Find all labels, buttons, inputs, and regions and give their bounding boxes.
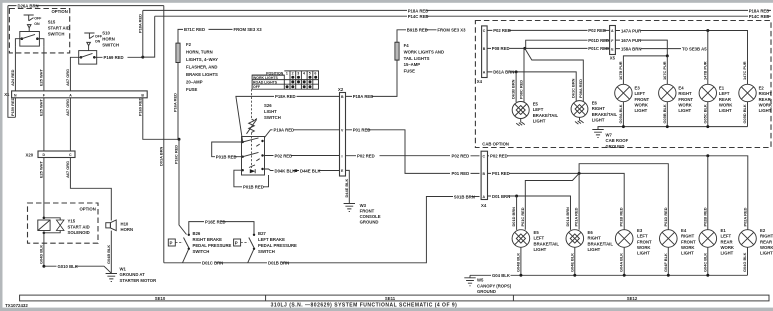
wire P01B RED jumper loop left (212, 142, 243, 160)
svg-text:BRAKE/TAIL: BRAKE/TAIL (588, 241, 614, 246)
svg-text:E3: E3 (635, 86, 641, 91)
svg-text:REAR: REAR (760, 239, 772, 244)
wire G04B BLK horn down (106, 231, 111, 274)
svg-text:P159 RED: P159 RED (10, 97, 15, 116)
svg-text:X2: X2 (338, 87, 344, 92)
svg-text:FRONT: FRONT (678, 97, 693, 102)
wire 167A PUR X5F to front work lamps (615, 38, 668, 85)
svg-text:FRONT: FRONT (637, 239, 652, 244)
svg-text:WORK: WORK (678, 102, 692, 107)
wire A67 ORG X20 to horn H10 (65, 158, 111, 221)
svg-text:FROM SE3 X3: FROM SE3 X3 (234, 27, 263, 32)
svg-text:STARTER MOTOR: STARTER MOTOR (120, 278, 157, 283)
svg-text:G05D BLK: G05D BLK (742, 104, 747, 123)
svg-text:F2: F2 (186, 42, 192, 47)
svg-text:LIGHT: LIGHT (592, 117, 605, 122)
svg-text:P01B RED: P01B RED (619, 207, 624, 226)
svg-text:P18A RED: P18A RED (137, 14, 142, 33)
svg-text:167A PUR: 167A PUR (621, 38, 641, 43)
switch S15 START AID SWITCH (15, 15, 70, 46)
svg-text:310LJ (S.N. —802629) SYSTEM FU: 310LJ (S.N. —802629) SYSTEM FUNCTIONAL S… (271, 303, 458, 309)
svg-text:P01A RED: P01A RED (574, 207, 579, 226)
svg-text:5: 5 (309, 72, 311, 76)
svg-text:I: I (342, 154, 343, 158)
svg-text:CAB OPTION: CAB OPTION (482, 141, 509, 146)
wire D01C BRN / D01B BRN brake bottom bus (164, 197, 453, 266)
svg-text:158A BRN: 158A BRN (621, 46, 641, 51)
lamp E4 lower RIGHT FRONT WORK LIGHT (660, 228, 697, 255)
svg-text:D01A BRN: D01A BRN (565, 207, 570, 227)
svg-text:LEFT: LEFT (635, 91, 646, 96)
svg-text:ON: ON (95, 40, 101, 44)
wire P02 RED X4C to lower rear work lamps (488, 154, 748, 230)
svg-text:BRAKE LIGHTS: BRAKE LIGHTS (186, 72, 218, 77)
svg-text:BRAKE/TAIL: BRAKE/TAIL (534, 241, 560, 246)
svg-text:W1: W1 (120, 266, 127, 271)
wire P08 RED X4B with junction (487, 46, 609, 51)
svg-text:LIGHT: LIGHT (635, 108, 648, 113)
wire P02 RED X4C to X5A (487, 28, 609, 33)
svg-text:LIGHT: LIGHT (588, 247, 601, 252)
svg-text:ROAD LIGHTS: ROAD LIGHTS (253, 81, 278, 85)
svg-text:SWITCH: SWITCH (193, 249, 210, 254)
option box Y15 (dashed) (28, 203, 99, 243)
svg-text:FUSE: FUSE (186, 87, 198, 92)
svg-text:P02B RED: P02B RED (702, 207, 707, 226)
svg-text:3: 3 (297, 72, 299, 76)
svg-text:HORN: HORN (121, 227, 134, 232)
svg-text:REAR: REAR (721, 239, 733, 244)
svg-text:D01 BRN: D01 BRN (492, 194, 510, 199)
svg-text:G04F BLK: G04F BLK (663, 253, 668, 272)
svg-text:P01D RED: P01D RED (663, 207, 668, 226)
wire P02 RED light switch to X2 (264, 154, 340, 159)
switch S26 LIGHT SWITCH (242, 89, 281, 175)
svg-text:G04A BLK: G04A BLK (619, 253, 624, 272)
svg-text:D26A BRN: D26A BRN (18, 3, 39, 8)
node junction G010 (42, 265, 45, 268)
svg-text:P16A RED: P16A RED (173, 93, 178, 112)
svg-text:LEFT: LEFT (533, 107, 544, 112)
svg-text:P: P (170, 241, 173, 246)
svg-text:G010 BLK: G010 BLK (58, 264, 79, 269)
svg-text:FUSE: FUSE (404, 69, 416, 74)
wire P01 RED X2 to X4 pin B (346, 128, 480, 177)
svg-text:SWITCH: SWITCH (102, 42, 119, 47)
svg-text:S01B BRN: S01B BRN (454, 194, 475, 199)
svg-text:P02 RED: P02 RED (452, 154, 470, 159)
wire cab ground bus (598, 125, 748, 129)
node junction P16 at x142.8 (141, 56, 144, 59)
svg-text:LIGHT: LIGHT (759, 108, 772, 113)
svg-text:P01 RED: P01 RED (353, 128, 371, 133)
svg-text:P01 RED: P01 RED (452, 171, 470, 176)
svg-text:LIGHTS, 4–WAY: LIGHTS, 4–WAY (186, 57, 218, 62)
svg-text:E25 WHT: E25 WHT (39, 99, 44, 116)
svg-text:D04K BLK: D04K BLK (275, 168, 297, 173)
horn H10 (106, 220, 133, 232)
wire P14C RED long top run (155, 14, 771, 19)
svg-text:G05A BLK: G05A BLK (618, 104, 623, 123)
table S26 light switch positions (252, 71, 318, 89)
svg-text:OPTION: OPTION (52, 9, 68, 14)
wire D26B BRN S15 to X1 pin (10, 46, 15, 91)
svg-text:S15: S15 (48, 20, 56, 25)
lamp E2 cab RIGHT REAR WORK LIGHT (739, 84, 773, 113)
svg-text:P19A RED: P19A RED (274, 128, 295, 133)
svg-text:W7: W7 (606, 133, 613, 138)
svg-text:2: 2 (292, 72, 294, 76)
svg-text:CONSOLE: CONSOLE (360, 214, 381, 219)
svg-text:FRONT: FRONT (360, 208, 375, 213)
svg-text:E5: E5 (533, 102, 539, 107)
wires cab work lamps to ground bus (618, 102, 748, 127)
svg-text:D44E BLK: D44E BLK (300, 168, 321, 173)
svg-text:E6: E6 (588, 230, 594, 235)
svg-text:H10: H10 (121, 221, 129, 226)
wire D61A BRN X4A to cab tail lamps (487, 70, 576, 102)
connector X4 upper (cab) (477, 26, 487, 84)
svg-text:TX1072432: TX1072432 (5, 303, 28, 308)
svg-text:X4: X4 (481, 203, 487, 208)
ground W7 CAB ROOF GROUND (592, 130, 628, 149)
svg-text:HORN: HORN (102, 36, 115, 41)
lamp E1 cab LEFT REAR WORK LIGHT (699, 84, 733, 113)
svg-text:P02 RED: P02 RED (493, 28, 511, 33)
svg-text:WORK: WORK (637, 245, 651, 250)
svg-text:SE11: SE11 (385, 296, 396, 301)
svg-text:B26: B26 (193, 231, 201, 236)
svg-text:167B PUR: 167B PUR (618, 61, 623, 80)
lamp E6 cab RIGHT BRAKE/TAIL LIGHT (571, 101, 617, 125)
svg-text:LEFT: LEFT (721, 234, 732, 239)
wire G04D BLK solenoid down (39, 233, 44, 266)
svg-text:20–AMP: 20–AMP (186, 79, 203, 84)
svg-text:P18A RED: P18A RED (408, 8, 429, 13)
svg-text:S10: S10 (102, 30, 110, 35)
connector X20 (26, 151, 76, 158)
svg-text:A67 ORG: A67 ORG (65, 69, 70, 86)
lamp E5 lower LEFT BRAKE/TAIL LIGHT (512, 230, 559, 252)
svg-text:E2: E2 (760, 228, 766, 233)
wire P18B RED X2 to fuse F4 (346, 60, 398, 99)
svg-text:REAR: REAR (759, 97, 771, 102)
wire P08A RED junction to E6 cab (525, 48, 584, 101)
svg-text:F4: F4 (404, 43, 410, 48)
svg-text:FROM SE3 X3: FROM SE3 X3 (437, 28, 466, 33)
svg-text:G04E BLK: G04E BLK (569, 253, 574, 272)
wire P01B RED jumper loop bottom (234, 170, 269, 189)
svg-text:B27: B27 (258, 231, 266, 236)
pressure switch B26 RIGHT BRAKE PEDAL PRESSURE SWITCH (168, 231, 231, 263)
svg-text:X5: X5 (610, 55, 616, 60)
svg-text:CANOPY (ROPS): CANOPY (ROPS) (477, 283, 512, 288)
svg-text:D44E BLK: D44E BLK (344, 179, 349, 198)
fuse F4 WORK LIGHTS AND TAIL LIGHTS (395, 28, 466, 74)
svg-text:P18A RED: P18A RED (275, 94, 296, 99)
svg-text:E2: E2 (759, 86, 765, 91)
svg-text:P01C RED: P01C RED (520, 207, 525, 226)
wire P16A RED fuse output (173, 63, 178, 140)
solenoid Y15 START AID SOLENOID (38, 217, 90, 236)
connector X4 lower (481, 151, 488, 208)
svg-text:E4: E4 (678, 86, 684, 91)
wire jog to P14C run (143, 16, 155, 57)
svg-text:G04D BLK: G04D BLK (39, 245, 44, 264)
svg-text:D01C BRN: D01C BRN (202, 261, 223, 266)
wire D01A BRN long vertical x164 (159, 6, 164, 263)
svg-text:P18A RED: P18A RED (749, 8, 770, 13)
svg-text:RIGHT: RIGHT (678, 91, 692, 96)
svg-text:ON: ON (34, 22, 40, 26)
svg-text:LIGHT: LIGHT (637, 251, 650, 256)
svg-text:RIGHT: RIGHT (760, 234, 773, 239)
wire D44E BLK X2 to ground (344, 170, 349, 203)
wire D01 BRN X4A to lower tail lamps (488, 194, 571, 230)
svg-text:147B PUR: 147B PUR (702, 61, 707, 80)
svg-text:B71C RED: B71C RED (184, 27, 205, 32)
wire E25 WHT S15 to X1 pin (39, 46, 44, 91)
svg-text:SE10: SE10 (155, 296, 166, 301)
svg-text:CAB ROOF: CAB ROOF (606, 138, 629, 143)
connector X5 (610, 26, 616, 61)
wire E25 WHT X1 to X20 (39, 98, 44, 151)
svg-text:P08 RED: P08 RED (492, 46, 510, 51)
svg-text:REAR: REAR (719, 97, 731, 102)
svg-text:SWITCH: SWITCH (264, 115, 281, 120)
svg-text:W5: W5 (477, 278, 484, 283)
svg-text:W3: W3 (360, 203, 367, 208)
svg-text:P02 RED: P02 RED (357, 154, 375, 159)
wire P159 RED below X1 to frame (10, 97, 15, 117)
svg-text:P18A RED: P18A RED (353, 94, 374, 99)
svg-text:LIGHT: LIGHT (533, 118, 546, 123)
svg-text:START AID: START AID (68, 224, 90, 229)
svg-text:WORK LIGHTS: WORK LIGHTS (253, 76, 279, 80)
svg-text:G04C BLK: G04C BLK (702, 253, 707, 272)
lamp E3 cab LEFT FRONT WORK LIGHT (615, 84, 650, 113)
border gray top strip (0, 0, 773, 3)
lamp E1 lower LEFT REAR WORK LIGHT (699, 228, 735, 255)
svg-text:G05C BLK: G05C BLK (702, 104, 707, 123)
svg-text:OFF: OFF (34, 17, 42, 21)
wire P08C RED junction down to E5 cab (523, 48, 525, 102)
svg-text:D01A BRN: D01A BRN (159, 146, 164, 166)
svg-text:HORN, TURN: HORN, TURN (186, 49, 213, 54)
wire P02 RED X2 to X4 pin C (346, 154, 480, 159)
wire P16 feed up to P18A run (137, 10, 142, 57)
svg-text:E4: E4 (681, 228, 687, 233)
svg-text:WORK: WORK (719, 102, 733, 107)
connector X1 (4, 91, 147, 98)
svg-text:P01D RED: P01D RED (588, 38, 609, 43)
svg-text:WORK: WORK (681, 245, 695, 250)
svg-text:TAIL LIGHTS: TAIL LIGHTS (404, 56, 430, 61)
svg-text:LIGHT: LIGHT (678, 108, 691, 113)
wire D26A BRN top feed (8, 3, 164, 8)
svg-text:E3: E3 (637, 228, 643, 233)
svg-text:GROUND: GROUND (606, 144, 625, 149)
wire G04 BLK lower ground bus (470, 273, 748, 278)
svg-text:RIGHT: RIGHT (681, 234, 695, 239)
svg-text:WORK: WORK (760, 245, 773, 250)
svg-text:Y15: Y15 (68, 219, 76, 224)
svg-text:GROUND: GROUND (360, 220, 379, 225)
svg-text:PEDAL PRESSURE: PEDAL PRESSURE (258, 243, 297, 248)
svg-text:LEFT: LEFT (637, 234, 648, 239)
svg-text:BRAKE/TAIL: BRAKE/TAIL (592, 112, 618, 117)
svg-text:B91B RED: B91B RED (407, 28, 428, 33)
lamp E3 lower LEFT FRONT WORK LIGHT (615, 228, 652, 255)
svg-text:TO SE3B A5: TO SE3B A5 (682, 46, 707, 51)
svg-text:LEFT BRAKE: LEFT BRAKE (258, 237, 285, 242)
svg-text:LIGHT: LIGHT (719, 108, 732, 113)
svg-text:FLASHER, AND: FLASHER, AND (186, 64, 217, 69)
ground W5 CANOPY ROPS GROUND (464, 275, 511, 294)
svg-text:SE12: SE12 (627, 296, 638, 301)
wire 147A PUR X5A to rear work lamps (615, 28, 747, 84)
wire P16E RED brake switch top link (189, 219, 254, 234)
svg-text:S26: S26 (264, 103, 272, 108)
svg-text:P02 RED: P02 RED (588, 28, 606, 33)
svg-text:E5: E5 (534, 230, 540, 235)
svg-text:FRONT: FRONT (681, 239, 696, 244)
svg-text:P14C RED: P14C RED (749, 14, 770, 19)
connector X2 (338, 87, 346, 176)
svg-text:P16E RED: P16E RED (205, 219, 226, 224)
wire P01D RED to X5F (526, 38, 610, 48)
svg-text:E1: E1 (719, 86, 725, 91)
svg-text:RIGHT: RIGHT (759, 91, 773, 96)
svg-text:D61A BRN: D61A BRN (493, 70, 514, 75)
svg-text:P169 RED: P169 RED (104, 55, 124, 60)
svg-text:START AID: START AID (48, 26, 70, 31)
svg-text:E6: E6 (592, 101, 598, 106)
bar SE10 SE11 SE12 (20, 295, 769, 301)
ground W3 FRONT CONSOLE GROUND (344, 203, 381, 225)
svg-text:LIGHT: LIGHT (534, 247, 547, 252)
border gray left strip (0, 0, 3, 311)
wire P18A RED long top run (143, 8, 771, 13)
svg-text:G04B BLK: G04B BLK (515, 253, 520, 272)
wire P01 RED X4B distribution (488, 164, 669, 230)
svg-text:RIGHT: RIGHT (592, 106, 606, 111)
svg-text:D61B BRN: D61B BRN (511, 79, 516, 99)
lamp E6 lower RIGHT BRAKE/TAIL LIGHT (566, 230, 613, 252)
svg-text:G04B BLK: G04B BLK (106, 245, 111, 264)
wire P19A RED light switch to X2 (265, 128, 340, 138)
svg-text:147C PUR: 147C PUR (742, 61, 747, 80)
svg-text:GROUND AT: GROUND AT (120, 272, 146, 277)
svg-text:RIGHT: RIGHT (588, 236, 602, 241)
ground W1 GROUND AT STARTER MOTOR (106, 266, 157, 283)
svg-text:OFF: OFF (253, 85, 261, 89)
svg-text:P01B RED: P01B RED (216, 155, 237, 160)
lamp E5 cab LEFT BRAKE/TAIL LIGHT (512, 102, 558, 126)
svg-text:X20: X20 (26, 152, 34, 157)
svg-text:P169 RED: P169 RED (137, 97, 142, 116)
pressure switch B27 LEFT BRAKE PEDAL PRESSURE SWITCH (234, 231, 297, 263)
svg-text:147A PUR: 147A PUR (621, 28, 641, 33)
fuse F2 HORN TURN LIGHTS (176, 27, 263, 92)
option box S15 (dashed) (9, 9, 69, 53)
svg-text:D01B BRN: D01B BRN (268, 261, 289, 266)
svg-text:WORK: WORK (635, 102, 649, 107)
svg-text:P02 RED: P02 RED (490, 154, 508, 159)
svg-text:RIGHT BRAKE: RIGHT BRAKE (193, 237, 223, 242)
svg-text:P16C RED: P16C RED (174, 145, 179, 164)
svg-text:P14C RED: P14C RED (408, 14, 429, 19)
svg-text:LIGHT: LIGHT (681, 251, 694, 256)
node junction P16 at fuse column (178, 138, 181, 141)
wire D04K BLK / D44E BLK to X2 (264, 168, 340, 173)
wires lower lamps to ground bus (515, 247, 747, 275)
svg-text:WORK: WORK (759, 102, 773, 107)
wire A67 ORG S10 to X1 pin (65, 57, 81, 91)
svg-text:A67 ORG: A67 ORG (65, 99, 70, 116)
svg-text:6: 6 (314, 72, 316, 76)
svg-text:P: P (235, 241, 238, 246)
svg-text:4: 4 (303, 72, 305, 76)
svg-text:LIGHT: LIGHT (721, 251, 734, 256)
svg-text:X4: X4 (477, 79, 483, 84)
svg-text:E25 WHT: E25 WHT (39, 69, 44, 86)
lamp E2 lower RIGHT REAR WORK LIGHT (739, 228, 773, 255)
svg-text:OPTION: OPTION (80, 207, 96, 212)
svg-text:LIGHT: LIGHT (264, 109, 277, 114)
wire G010 BLK (44, 264, 111, 273)
svg-text:1: 1 (286, 72, 288, 76)
svg-text:FRONT: FRONT (635, 97, 650, 102)
cab option dashed box (475, 21, 771, 148)
wire E25 WHT X20 to Y15 (39, 158, 44, 218)
svg-text:G05B BLK: G05B BLK (662, 104, 667, 123)
svg-text:P01B RED: P01B RED (243, 185, 264, 190)
svg-text:P02 RED: P02 RED (275, 154, 293, 159)
switch S10 HORN SWITCH (79, 30, 119, 64)
svg-text:WORK LIGHTS AND: WORK LIGHTS AND (404, 49, 444, 54)
svg-text:15–AMP: 15–AMP (404, 62, 421, 67)
svg-text:LEFT: LEFT (719, 91, 730, 96)
wire S01B BRN to X4 pin A (454, 194, 480, 199)
svg-text:A67 ORG: A67 ORG (65, 161, 70, 178)
svg-text:G04 BLK: G04 BLK (492, 273, 511, 278)
svg-text:GROUND: GROUND (477, 289, 496, 294)
wire P16C RED down to brake switches (174, 139, 187, 234)
svg-text:P08C RED: P08C RED (519, 80, 524, 99)
svg-text:P08A RED: P08A RED (578, 79, 583, 98)
wire P18A RED X2 to light switch (236, 94, 340, 142)
svg-text:SOLENOID: SOLENOID (68, 230, 90, 235)
svg-text:BRAKE/TAIL: BRAKE/TAIL (533, 113, 559, 118)
svg-text:SWITCH: SWITCH (258, 249, 275, 254)
svg-text:E1: E1 (721, 228, 727, 233)
wire 158A BRN X5E to SE3B (615, 46, 707, 51)
svg-text:P02A RED: P02A RED (742, 207, 747, 226)
wire P16D RED X1 pin B down to junction (137, 97, 179, 139)
svg-text:PEDAL PRESSURE: PEDAL PRESSURE (193, 243, 232, 248)
svg-text:D01D BRN: D01D BRN (511, 207, 516, 227)
lamp E4 cab RIGHT FRONT WORK LIGHT (659, 84, 694, 113)
svg-text:P01 RED: P01 RED (492, 171, 510, 176)
svg-text:A24 RED: A24 RED (10, 69, 15, 86)
wire left frame drop to X1 branch (8, 6, 15, 118)
svg-text:WORK: WORK (721, 245, 735, 250)
svg-text:LEFT: LEFT (534, 236, 545, 241)
svg-text:D61C BRN: D61C BRN (571, 78, 576, 98)
svg-text:X1: X1 (4, 92, 10, 97)
svg-text:LIGHT: LIGHT (760, 251, 773, 256)
